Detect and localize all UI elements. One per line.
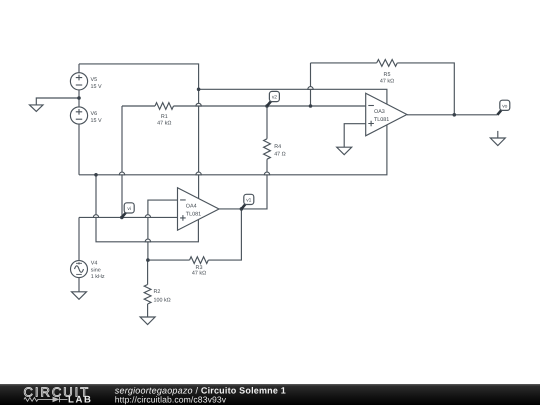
node v2 flag: [267, 101, 271, 106]
svg-text:47 kΩ: 47 kΩ: [157, 120, 171, 126]
junction: [94, 173, 98, 177]
wire hop crossing: [145, 215, 150, 218]
voltage source V6: [70, 107, 87, 124]
ground below V4: [72, 292, 87, 300]
svg-text:vo: vo: [502, 104, 507, 109]
wire OA4 inverting input to R2/R3 node: [148, 200, 178, 260]
svg-text:1 kHz: 1 kHz: [91, 274, 105, 280]
ground below R2: [140, 317, 155, 325]
wire v2 node up to R5 feedback: [310, 63, 312, 106]
wire R5 feedback loop: [311, 63, 455, 115]
wire OA3 non-inverting input to ground: [344, 124, 366, 148]
wire OA3 output to vo: [407, 114, 498, 116]
node vo flag: [497, 110, 501, 115]
wire ground tap from V5/V6 midpoint: [36, 98, 79, 105]
junction: [77, 96, 81, 100]
svg-text:100 kΩ: 100 kΩ: [154, 297, 171, 303]
logo diode symbol: [60, 397, 68, 403]
junction: [240, 207, 244, 211]
svg-text:47 kΩ: 47 kΩ: [380, 78, 394, 84]
resistor R4: [264, 139, 271, 159]
wire R2 leads: [147, 260, 149, 317]
junction: [453, 113, 457, 117]
wire hop crossing: [145, 239, 150, 242]
wire hop crossing: [196, 172, 201, 175]
wire -15V rail: V6 bottom to OA3 V- pin: [79, 125, 387, 175]
svg-text:V5: V5: [91, 77, 98, 83]
svg-text:v1: v1: [246, 198, 251, 204]
svg-text:OA4: OA4: [186, 203, 197, 209]
wire R3 line and v1 vertical: [148, 209, 242, 260]
op-amp OA3: [366, 93, 407, 136]
wire V5-V6 stack vertical: [78, 64, 80, 175]
wire vi node vertical to R1: [121, 106, 123, 217]
svg-text:LAB: LAB: [68, 395, 93, 405]
svg-text:R2: R2: [154, 289, 161, 295]
junction: [146, 258, 150, 262]
wire OA4 output to R4 to v2: [219, 106, 267, 209]
wire vi-R1-v2 line to OA3 inverting input: [122, 105, 366, 107]
svg-text:15 V: 15 V: [91, 84, 102, 90]
svg-text:15 V: 15 V: [91, 118, 102, 124]
node vi flag: [122, 212, 126, 217]
svg-text:vi: vi: [127, 206, 131, 212]
resistor R1: [155, 103, 174, 110]
wire V4 vertical: [78, 217, 80, 291]
footer bar: [0, 384, 540, 405]
wire -15V branch to OA4 V- pin: [96, 175, 198, 242]
svg-text:OA3: OA3: [374, 109, 385, 115]
junction: [309, 104, 313, 108]
op-amp OA4: [178, 188, 220, 231]
svg-text:sine: sine: [91, 268, 101, 274]
ground at V5/V6 midpoint: [30, 105, 44, 112]
wire hop crossing: [119, 172, 124, 175]
voltage source V4 sine: [71, 261, 88, 278]
junction: [197, 88, 201, 92]
logo resistor squiggle: [24, 398, 53, 402]
junction: [265, 104, 269, 108]
wire V4 to OA4 non-inverting input: [79, 216, 178, 218]
resistor R3: [190, 257, 209, 264]
wire hop crossing: [196, 103, 201, 106]
node v1 flag: [241, 204, 245, 209]
svg-text:R5: R5: [384, 72, 391, 78]
svg-text:TL081: TL081: [186, 212, 201, 218]
resistor R5: [377, 60, 398, 67]
resistor R2: [144, 285, 151, 305]
junction: [120, 216, 124, 220]
svg-text:R4: R4: [274, 144, 281, 150]
svg-text:V4: V4: [91, 261, 98, 267]
voltage source V5: [70, 73, 87, 90]
wire hop crossing: [264, 172, 269, 175]
svg-text:v2: v2: [272, 95, 277, 101]
wire hop crossing: [308, 87, 313, 90]
svg-text:47 kΩ: 47 kΩ: [192, 271, 206, 277]
ground below vo: [490, 138, 505, 146]
svg-text:V6: V6: [91, 111, 98, 117]
svg-text:TL081: TL081: [374, 117, 389, 123]
svg-text:http://circuitlab.com/c83v93v: http://circuitlab.com/c83v93v: [115, 395, 227, 405]
wire +15V branch to OA3 V+ pin: [199, 89, 387, 107]
ground at OA3 non-inverting input: [337, 147, 352, 155]
wire +15V rail: V5 top to OA4 V+ pin: [79, 64, 199, 199]
wire vo ground stem: [497, 131, 499, 138]
svg-text:R1: R1: [161, 114, 168, 120]
svg-text:47 Ω: 47 Ω: [274, 151, 286, 157]
wire hop crossing: [93, 215, 98, 218]
